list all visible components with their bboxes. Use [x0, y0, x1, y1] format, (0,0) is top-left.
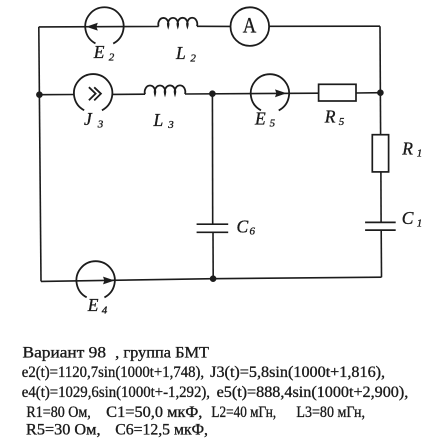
svg-text:3: 3: [97, 118, 104, 130]
wire row2 left (left rail to J3): [39, 94, 74, 96]
svg-text:e2(t)=1120,7sin(1000t+1,748),: e2(t)=1120,7sin(1000t+1,748),: [22, 364, 204, 381]
svg-text:C6=12,5 мкФ,: C6=12,5 мкФ,: [115, 421, 208, 438]
svg-text:R1=80 Ом,: R1=80 Ом,: [26, 404, 90, 421]
svg-text:3: 3: [167, 119, 174, 131]
svg-text:C: C: [237, 217, 249, 237]
source E2 circle: [85, 7, 123, 43]
svg-text:E: E: [87, 295, 99, 315]
svg-text:5: 5: [270, 117, 276, 129]
arrow of E5 (points right): [275, 89, 287, 97]
ammeter A circle: [231, 7, 270, 46]
svg-text:J3(t)=5,8sin(1000t+1,816),: J3(t)=5,8sin(1000t+1,816),: [210, 364, 385, 381]
capacitor C6 plates: [197, 224, 229, 232]
wire top between L2 and ammeter: [197, 25, 231, 27]
arrow of E4 (points right): [103, 277, 115, 285]
wire row2 R5 to right rail: [356, 92, 380, 94]
resistor R1 box: [372, 135, 388, 172]
svg-text:E: E: [93, 42, 105, 62]
svg-text:e5(t)=888,4sin(1000t+2,900),: e5(t)=888,4sin(1000t+2,900),: [217, 384, 409, 401]
svg-text:R: R: [324, 106, 336, 126]
inductor L3: [145, 85, 186, 94]
wire right vertical upper: [379, 26, 382, 135]
svg-text:4: 4: [102, 305, 108, 317]
svg-text:L: L: [153, 110, 164, 130]
svg-text:E: E: [254, 108, 266, 128]
svg-text:, группа БМТ: , группа БМТ: [115, 345, 209, 362]
svg-text:5: 5: [339, 116, 345, 128]
junction dot row2 right rail: [377, 89, 384, 96]
source J3 circle: [74, 74, 112, 110]
current source J3 chevrons: [89, 87, 101, 100]
svg-text:C1=50,0 мкФ,: C1=50,0 мкФ,: [106, 404, 202, 421]
svg-text:1: 1: [417, 148, 423, 160]
wire C6 branch lower: [212, 232, 214, 278]
wire C6 branch upper: [211, 94, 213, 224]
arrow of E2 (points left): [86, 23, 98, 31]
svg-text:2: 2: [109, 51, 115, 63]
wire row2 J3 to L3: [112, 93, 145, 95]
svg-text:C: C: [402, 208, 414, 228]
svg-text:L3=80 мГн,: L3=80 мГн,: [296, 404, 365, 421]
svg-text:J: J: [84, 109, 93, 129]
wire right vertical mid (R1 to C1): [380, 172, 382, 223]
source E4 circle: [76, 261, 114, 297]
capacitor C1 plates: [365, 222, 396, 230]
wire top-left segment through E2: [39, 26, 159, 28]
svg-text:1: 1: [417, 218, 423, 230]
wire row2 L3 to R5 through E5: [185, 92, 319, 95]
svg-text:2: 2: [190, 52, 196, 64]
inductor L2: [158, 18, 197, 27]
junction dot row2 C6 branch: [209, 90, 216, 97]
wire left vertical: [39, 27, 41, 282]
svg-text:L2=40 мГн,: L2=40 мГн,: [211, 404, 276, 421]
svg-text:e4(t)=1029,6sin(1000t+-1,292),: e4(t)=1029,6sin(1000t+-1,292),: [22, 384, 210, 401]
source E5 circle: [251, 74, 289, 110]
svg-text:R5=30 Ом,: R5=30 Ом,: [26, 421, 101, 438]
resistor R5 box: [319, 84, 356, 101]
svg-text:A: A: [243, 13, 257, 38]
wire top-right segment: [269, 25, 380, 27]
wire bottom through E4: [41, 277, 382, 281]
junction dot bottom C6 branch: [210, 275, 217, 282]
wire right vertical lower (C1 to bottom): [380, 230, 382, 277]
svg-text:6: 6: [250, 226, 256, 238]
svg-text:R: R: [401, 138, 413, 158]
svg-text:L: L: [175, 43, 186, 63]
svg-text:Вариант 98: Вариант 98: [23, 345, 107, 362]
junction dot left rail row2: [36, 91, 43, 98]
